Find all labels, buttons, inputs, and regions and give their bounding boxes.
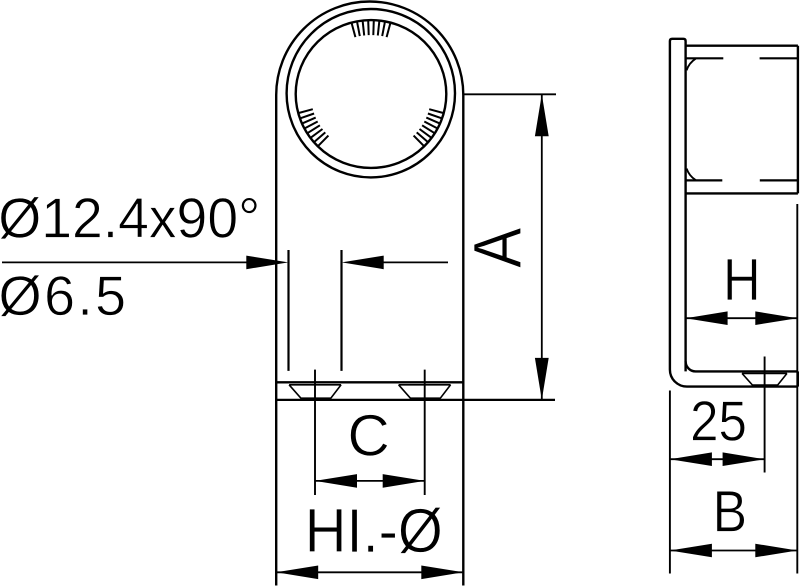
dia 6.5 leader right line [380, 261, 448, 263]
side ring bore hidden line bottom [686, 179, 798, 181]
side view plate [670, 39, 686, 372]
arrow 25 right [723, 452, 765, 466]
H dimension line [686, 317, 798, 319]
side view bottom bend outer [670, 370, 798, 387]
side hole centerline / 25 extension [764, 357, 766, 473]
front view body outline (dome + sides) [276, 1, 463, 585]
knurl ticks top group [352, 20, 391, 37]
svg-text:HI.-Ø: HI.-Ø [305, 497, 443, 566]
side ring bore hidden line top [686, 57, 798, 59]
knurl ticks lower-right group [414, 109, 444, 146]
left hole wall right [340, 250, 342, 371]
fillet mark top [687, 59, 696, 71]
side ring right face [797, 46, 799, 194]
arrow HI right [421, 566, 463, 580]
arrow C right [383, 474, 425, 488]
arrow dia6.5 right (pointing left) [342, 256, 384, 270]
fillet mark bottom [687, 169, 696, 181]
arrow dia6.5 left (pointing right) [246, 256, 288, 270]
side view bottom bend inner / flange top [686, 361, 798, 371]
arrow 25 left [670, 452, 712, 466]
side ring bottom line [686, 192, 798, 194]
right extension line (H and B) [796, 204, 798, 574]
knurl ticks lower-left group [298, 109, 328, 146]
arrow C left [315, 474, 357, 488]
left countersink [289, 385, 341, 398]
inner bore circle [296, 20, 447, 168]
arrow A top (up) [535, 94, 549, 136]
svg-text:C: C [347, 404, 389, 469]
svg-text:A: A [459, 228, 535, 268]
arrow H left [686, 311, 728, 325]
dimension A line [541, 94, 543, 400]
dimension A top extension line [464, 93, 556, 95]
B dimension line [670, 550, 797, 552]
svg-text:H: H [723, 247, 761, 313]
arrow B right [755, 544, 797, 558]
flange top line [276, 381, 463, 383]
svg-text:25: 25 [690, 390, 747, 453]
side countersink [742, 373, 787, 385]
arrow A bottom (down) [535, 358, 549, 400]
svg-text:Ø12.4x90°: Ø12.4x90° [0, 186, 260, 249]
outer ring circle [287, 9, 455, 177]
arrow HI left [276, 566, 318, 580]
left hole wall left [287, 250, 289, 371]
svg-text:Ø6.5: Ø6.5 [0, 265, 128, 327]
dia 6.5 leader left line [2, 261, 250, 263]
25 dimension line [670, 458, 765, 460]
dimension C line [315, 480, 425, 482]
left extension line (25 and B) [669, 391, 671, 574]
svg-text:B: B [713, 478, 747, 543]
body bottom line extended right (A bottom extension) [276, 399, 555, 401]
arrow B left [670, 544, 712, 558]
right countersink [399, 385, 451, 398]
arrow H right [755, 311, 797, 325]
right hole centerline / C extension [424, 370, 426, 495]
left hole centerline / C extension [314, 370, 316, 495]
dimension HI line [276, 571, 463, 573]
flange right face [797, 371, 799, 386]
side ring top line [686, 45, 798, 47]
